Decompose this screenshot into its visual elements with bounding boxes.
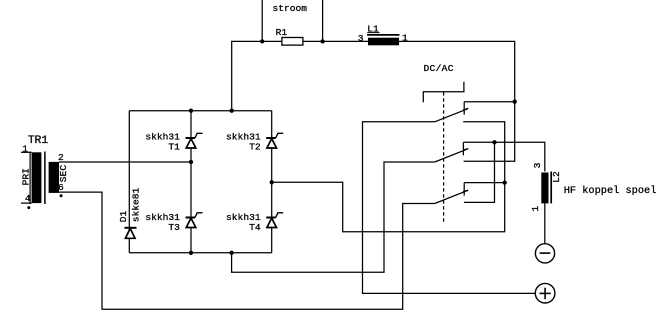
svg-text:T3: T3 xyxy=(168,222,180,233)
junction dot TR1 pin2 at T1 T3 midpoint xyxy=(189,160,193,164)
inductor L2 body xyxy=(541,173,548,204)
svg-text:6: 6 xyxy=(58,182,64,193)
svg-text:1: 1 xyxy=(402,33,408,44)
svg-text:2: 2 xyxy=(58,152,64,163)
wire T1 T3 column xyxy=(190,111,192,253)
switch pole 3 blade xyxy=(435,191,468,204)
switch pole 2 blade tip tick xyxy=(463,149,468,151)
svg-text:SEC: SEC xyxy=(58,165,69,183)
inductor L1 label underline xyxy=(367,32,379,34)
wire TR1 pin6 down and along bottom to switch 3 input xyxy=(59,192,435,309)
resistor R1 xyxy=(282,38,303,46)
inductor L1 bar xyxy=(367,34,399,36)
transformer TR1 primary polarity dot xyxy=(27,206,30,209)
wire stroom sense tap left xyxy=(261,0,263,41)
junction dot T2 T4 midpoint xyxy=(270,180,274,184)
svg-text:T2: T2 xyxy=(249,141,261,152)
transformer TR1 primary bottom stub pin 4 xyxy=(21,202,32,204)
junction dot bridge bottom tap xyxy=(229,251,233,255)
junction dot bridge top T1 column xyxy=(189,109,193,113)
transformer TR1 primary winding xyxy=(32,152,42,203)
svg-text:DC/AC: DC/AC xyxy=(424,63,454,74)
switch pole 1 blade tip tick xyxy=(463,108,468,110)
wire stroom sense tap right xyxy=(322,0,324,41)
wire T2 T4 column xyxy=(271,111,273,253)
svg-text:1: 1 xyxy=(530,206,541,212)
wire bridge left branch with D1 xyxy=(128,111,130,253)
thyristor T4 xyxy=(266,213,283,228)
junction dot switch2 upper contact tap xyxy=(492,140,496,144)
plus terminal xyxy=(535,283,555,303)
svg-text:HF koppel spoel: HF koppel spoel xyxy=(564,185,657,197)
svg-text:L2: L2 xyxy=(551,171,562,183)
switch pole 2 blade xyxy=(435,149,468,162)
wire TR1 pin2 to T1 T3 midpoint xyxy=(59,161,191,163)
wire switch1 upper contact to DC bus xyxy=(464,101,515,103)
switch pole 2 upper contact post xyxy=(462,142,464,155)
transformer TR1 primary top stub pin 1 xyxy=(21,151,32,153)
svg-text:3: 3 xyxy=(532,162,543,168)
junction dot switch1 lower switch3 upper net xyxy=(503,180,507,184)
wire switch3 upper contact xyxy=(464,182,505,184)
diode D1 xyxy=(125,228,137,239)
junction dot R1 tap right xyxy=(320,39,324,43)
wire switch2 upper contact to L2 xyxy=(463,142,544,171)
minus terminal xyxy=(535,244,554,263)
inductor L2 bar xyxy=(550,172,552,204)
thyristor T3 xyxy=(186,213,203,228)
svg-text:R1: R1 xyxy=(276,27,288,38)
wire plus output to switch 1 input xyxy=(363,122,536,294)
junction dot bridge bottom T3 column xyxy=(189,251,193,255)
svg-text:stroom: stroom xyxy=(273,3,308,14)
svg-text:T4: T4 xyxy=(249,222,261,233)
switch coupling dashed line xyxy=(443,92,445,222)
transformer TR1 secondary winding xyxy=(49,162,59,193)
svg-text:D1: D1 xyxy=(118,211,129,223)
transformer TR1 secondary polarity dot xyxy=(60,194,63,197)
junction dot bridge top feed xyxy=(230,109,234,113)
wire top DC bus xyxy=(232,41,515,161)
thyristor T2 xyxy=(266,133,283,148)
svg-text:4: 4 xyxy=(25,193,31,204)
svg-text:1: 1 xyxy=(22,143,28,154)
switch pole 3 blade tip tick xyxy=(463,190,468,192)
svg-text:TR1: TR1 xyxy=(28,135,49,147)
inductor L1 body xyxy=(368,38,399,46)
junction dot switch1 upper contact at DC bus xyxy=(513,100,517,104)
switch pole 1 blade xyxy=(435,109,468,122)
wire T2 T4 midpoint to switch1 lower and switch3 upper contacts xyxy=(272,122,505,232)
wire switch2 upper tap down to switch3 lower contact xyxy=(464,142,495,202)
switch pole 3 upper contact post xyxy=(463,183,465,196)
wire L2 to minus terminal xyxy=(544,203,546,243)
transformer TR1 primary side bar xyxy=(29,152,31,205)
transformer TR1 core xyxy=(44,152,46,205)
svg-text:skke81: skke81 xyxy=(131,188,142,223)
wire bridge top rail xyxy=(129,110,271,112)
switch actuator bracket xyxy=(423,82,464,103)
svg-text:3: 3 xyxy=(358,33,364,44)
wire bridge bottom tap to switch 2 input xyxy=(232,162,435,272)
svg-text:PRI: PRI xyxy=(20,168,31,185)
svg-text:T1: T1 xyxy=(168,141,180,152)
thyristor T1 xyxy=(186,133,203,148)
wire bridge bottom rail xyxy=(129,252,271,254)
junction dot R1 tap left xyxy=(260,39,264,43)
switch pole 1 upper contact post xyxy=(463,102,465,115)
